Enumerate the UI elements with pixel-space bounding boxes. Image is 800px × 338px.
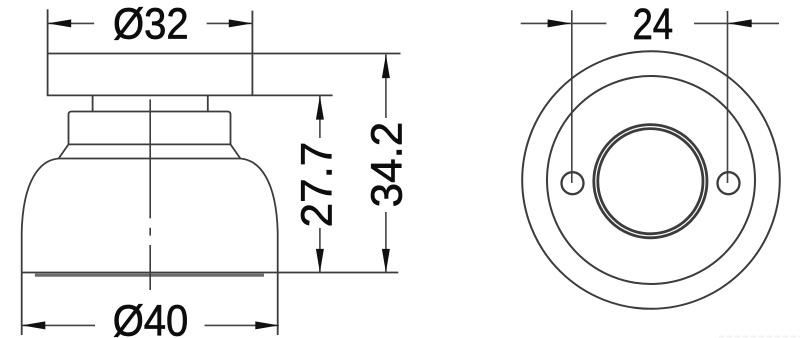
svg-text:Ø32: Ø32 xyxy=(113,0,189,48)
svg-text:27.7: 27.7 xyxy=(292,142,341,228)
svg-text:Ø40: Ø40 xyxy=(113,296,189,338)
svg-text:24: 24 xyxy=(632,0,673,49)
svg-text:34.2: 34.2 xyxy=(362,122,411,208)
